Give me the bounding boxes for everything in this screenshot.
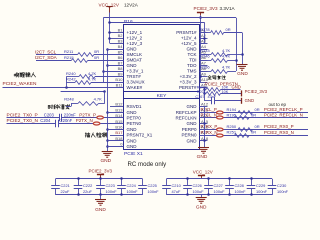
wire 12V down to A2/A3 [204,23,206,44]
svg-text:TRST#: TRST# [127,74,142,79]
wire PCIE2_REFCLK_P [200,112,309,114]
svg-text:47nF: 47nF [208,95,217,99]
svg-text:C226: C226 [193,183,202,188]
capacitor C222 [78,179,80,186]
svg-text:P16: P16 [124,19,133,25]
svg-text:100nF: 100nF [127,189,139,194]
svg-text:+12V_5: +12V_5 [181,41,197,46]
svg-text:100uF: 100uF [193,189,205,194]
svg-text:R242: R242 [66,76,76,81]
connector P16 body [124,25,200,150]
svg-text:B13: B13 [115,107,123,112]
capacitor C210 [166,179,168,186]
junction clkreq [103,90,106,93]
svg-text:B10: B10 [115,77,123,82]
svg-text:B6: B6 [118,55,124,60]
junction B1 [108,31,111,34]
svg-text:B3: B3 [118,39,124,44]
svg-text:GND: GND [127,138,138,143]
wire 12V cap rail bottom [167,194,273,196]
svg-text:P2TX_P: P2TX_P [79,113,96,118]
wire A-side GND vertical [200,106,205,108]
svg-text:GND: GND [196,205,207,211]
svg-text:C222: C222 [83,183,92,188]
svg-text:3.3VAUX: 3.3VAUX [127,80,145,85]
svg-text:GND: GND [127,127,138,132]
svg-text:R178: R178 [200,27,210,32]
svg-text:C203: C203 [44,112,55,117]
svg-text:GND: GND [95,207,106,213]
net tie oval P2RX_N [217,134,224,137]
net tie oval P2TX_P [97,116,104,119]
svg-text:PCIE2_REFCLK_P: PCIE2_REFCLK_P [264,107,303,112]
wire 12V horizontal to A-side [109,22,204,24]
svg-text:R211: R211 [64,49,74,54]
wire 3V3 right drop to pullups [236,18,238,71]
capacitor C230 [272,179,274,186]
svg-text:PETP0: PETP0 [127,116,142,121]
svg-text:B2: B2 [118,33,124,38]
wire GND vertical left [107,49,109,151]
junction 12V [108,21,111,24]
wire SDA [36,60,71,62]
svg-text:0R: 0R [255,107,260,112]
svg-text:TDO: TDO [187,63,197,68]
svg-text:P2RX_N: P2RX_N [201,130,218,135]
svg-text:SMDAT: SMDAT [127,58,143,63]
svg-text:PCIE2_RX0_N: PCIE2_RX0_N [264,130,294,135]
svg-text:0R: 0R [226,27,231,32]
wire clkreq upper [61,91,105,93]
svg-text:GND: GND [187,104,198,109]
svg-text:B9: B9 [118,72,124,77]
svg-text:+3.3V_1: +3.3V_1 [127,69,144,74]
svg-text:100uF: 100uF [214,189,226,194]
ground right upper [237,64,248,66]
svg-text:PCIE2_3V3: PCIE2_3V3 [194,6,218,11]
svg-text:C167: C167 [195,95,204,99]
capacitor C229 [251,179,253,186]
svg-text:100nF: 100nF [277,189,289,194]
svg-text:0R: 0R [255,124,260,129]
svg-text:PERST#: PERST# [179,85,197,90]
svg-text:4.7K: 4.7K [94,96,103,101]
junction B2 [108,37,111,40]
junction R201 [203,92,206,95]
svg-text:RSVD1: RSVD1 [127,104,143,109]
svg-text:C229: C229 [256,183,265,188]
svg-text:100nF: 100nF [235,189,247,194]
svg-text:GND: GND [245,98,255,103]
chinese label insert detect [85,133,106,138]
svg-text:47uF: 47uF [172,189,181,194]
svg-text:P2CL_N: P2CL_N [201,113,218,118]
svg-text:220nF: 220nF [64,112,76,117]
junction B7 [106,64,109,67]
svg-text:0R: 0R [251,113,256,118]
svg-text:R256: R256 [200,65,210,70]
svg-text:GND: GND [197,154,208,160]
svg-text:C221: C221 [61,183,70,188]
svg-text:C230: C230 [277,183,287,188]
svg-text:VCC_12V: VCC_12V [193,169,213,174]
junction A9 [199,75,202,78]
junction wake pullup [65,86,68,89]
wire PCIE2_TX0_N [7,123,56,125]
capacitor C226 [187,179,189,186]
wire PERSTN [200,87,205,89]
svg-text:+3.3V_3: +3.3V_3 [180,80,197,85]
svg-text:0R: 0R [94,49,99,54]
svg-text:4.7K: 4.7K [222,65,231,70]
capacitor C225 [142,179,144,186]
svg-text:4.7K: 4.7K [88,71,97,76]
svg-text:220nF: 220nF [60,118,72,123]
wire clkreq right [98,103,105,105]
svg-text:+12V_1: +12V_1 [127,30,143,35]
ground left [102,151,113,153]
svg-text:PERP0: PERP0 [182,127,197,132]
wire pullup joiner [66,77,68,88]
wire clkreq left [71,103,78,105]
svg-text:+3.3V_2: +3.3V_2 [180,74,197,79]
right pin stubs [200,32,208,34]
wire WAKEN [3,87,124,89]
svg-text:P2CL_P: P2CL_P [201,107,217,112]
net tie oval P2TX_N [93,122,100,125]
wire 3V3 stem down to A9/A10 [200,15,202,82]
svg-text:I2C7_SDA: I2C7_SDA [35,55,58,60]
svg-text:WAKE#: WAKE# [127,85,143,90]
svg-text:PERN0: PERN0 [181,133,197,138]
svg-text:B8: B8 [118,66,124,71]
svg-text:B16: B16 [115,125,123,130]
svg-text:GND: GND [187,138,198,143]
svg-text:+12V_3: +12V_3 [127,41,143,46]
net tie oval P2RX_P [217,128,224,131]
svg-text:GND: GND [187,121,198,126]
left pin stubs [110,32,124,34]
svg-text:R240: R240 [66,71,76,76]
junction B4 [106,48,109,51]
capacitor C224 [121,179,123,186]
svg-text:R246: R246 [200,54,210,59]
svg-text:TCK: TCK [188,52,197,57]
wire SCL [36,54,78,56]
svg-text:PCIE2_RX0_P: PCIE2_RX0_P [264,124,294,129]
wire PCIE2_REFCLK_N [200,117,309,119]
svg-text:C228: C228 [235,183,244,188]
junction B8 [102,70,105,73]
svg-text:100nF: 100nF [256,189,268,194]
svg-text:GND: GND [232,85,241,90]
wire 3V3 cap rail bottom [56,194,143,196]
wire PCIE2_RX0_P [200,129,309,131]
junction A2 [203,37,206,40]
svg-text:C223: C223 [106,183,115,188]
svg-text:GND: GND [127,63,138,68]
wire 3V3 left drop to B8/B10 [103,18,105,82]
svg-text:GND: GND [127,47,138,52]
svg-text:+12V_2: +12V_2 [127,36,143,41]
svg-text:B12: B12 [115,102,123,107]
ground bottom right [201,195,203,198]
svg-text:I2C7_SCL: I2C7_SCL [35,49,57,54]
power port PCIE2_3V3 small [241,90,243,96]
junction R244 [203,88,206,91]
svg-text:B1: B1 [118,28,124,33]
capacitor C228 [229,179,231,186]
capacitor C227 [208,179,210,186]
svg-text:4.7K: 4.7K [88,76,97,81]
wire 3V3 horizontal rail [103,17,236,19]
svg-text:R250: R250 [227,124,237,129]
svg-text:B5: B5 [118,50,124,55]
svg-text:KEY: KEY [157,93,168,99]
svg-text:B11: B11 [116,83,124,88]
svg-text:C224: C224 [127,183,137,188]
svg-text:C210: C210 [172,183,182,188]
junction A18 [203,139,206,142]
svg-text:+12V_4: +12V_4 [181,36,197,41]
wire R178 to ground [242,33,244,65]
svg-text:GND: GND [237,71,248,77]
svg-text:PCIE X1: PCIE X1 [124,151,143,157]
svg-text:100nF: 100nF [106,189,118,194]
svg-text:B17: B17 [115,130,123,135]
junction B13 [106,111,109,114]
svg-text:R194: R194 [227,107,237,112]
wire PCIE2_TX0_P [7,117,60,119]
chinese label clock request [48,104,70,109]
svg-text:100nF: 100nF [148,189,160,194]
svg-text:A12: A12 [201,102,209,107]
svg-text:R248: R248 [64,96,74,101]
junction R246 [235,59,238,62]
capacitor C223 [100,179,102,186]
svg-text:TMS: TMS [187,69,197,74]
wire perst block vertical [204,88,206,101]
junction A15 [203,122,206,125]
svg-text:0R: 0R [251,130,256,135]
svg-text:22uF: 22uF [61,189,70,194]
svg-text:GND: GND [127,110,138,115]
junction B16 [106,128,109,131]
svg-text:22uF: 22uF [83,189,92,194]
svg-text:C204: C204 [40,118,51,123]
svg-text:12V2A: 12V2A [124,2,139,7]
svg-text:PRSNT2_X1: PRSNT2_X1 [127,133,153,138]
svg-text:PCIE2_3V3: PCIE2_3V3 [245,89,268,94]
svg-text:PRSNT1#: PRSNT1# [176,30,197,35]
svg-text:GND: GND [187,47,198,52]
chinese label global reset [208,76,226,80]
svg-text:PCIE2_REFCLK_N: PCIE2_REFCLK_N [264,113,303,118]
svg-text:GND: GND [127,144,138,149]
svg-text:PCIE2_3V3: PCIE2_3V3 [89,168,113,173]
svg-text:B7: B7 [118,61,124,66]
svg-text:REFCLKP: REFCLKP [176,110,197,115]
power port GND small [241,98,243,104]
svg-text:3.3V1A: 3.3V1A [220,6,236,11]
svg-text:SMCLK: SMCLK [127,52,143,57]
svg-text:C225: C225 [148,183,157,188]
junction pin 0 [106,145,109,148]
wire PCIE2_RX0_N [200,135,309,137]
svg-text:PCIE2_WAKEN: PCIE2_WAKEN [3,81,37,87]
svg-text:4.7K: 4.7K [222,54,231,59]
svg-text:0R: 0R [94,55,99,60]
wire 3V3 cap rail top [56,178,143,180]
ground bottom middle [100,195,102,200]
svg-text:C227: C227 [214,183,223,188]
net tie oval P2CL_N [217,116,224,119]
svg-text:R233: R233 [200,48,210,53]
svg-text:A9: A9 [201,72,207,77]
chinese label wake input [14,73,35,78]
capacitor C221 [55,179,57,186]
svg-text:REFCLKN: REFCLKN [175,116,196,121]
svg-text:GND: GND [100,158,111,164]
svg-text:P2TX_N: P2TX_N [76,118,93,123]
net tie oval P2CL_P [217,111,224,114]
ground right lower [198,147,209,149]
junction R233 gnd [241,53,244,56]
junction B18 [106,139,109,142]
svg-text:PETN0: PETN0 [127,121,142,126]
svg-text:B4: B4 [118,44,124,49]
svg-text:TDI: TDI [189,58,196,63]
wire 12V vertical [109,13,111,44]
junction 3V3 rail [199,16,202,19]
wire 12V cap rail top [167,178,273,180]
svg-text:RC mode only: RC mode only [128,161,168,168]
svg-text:P2RX_P: P2RX_P [201,124,218,129]
